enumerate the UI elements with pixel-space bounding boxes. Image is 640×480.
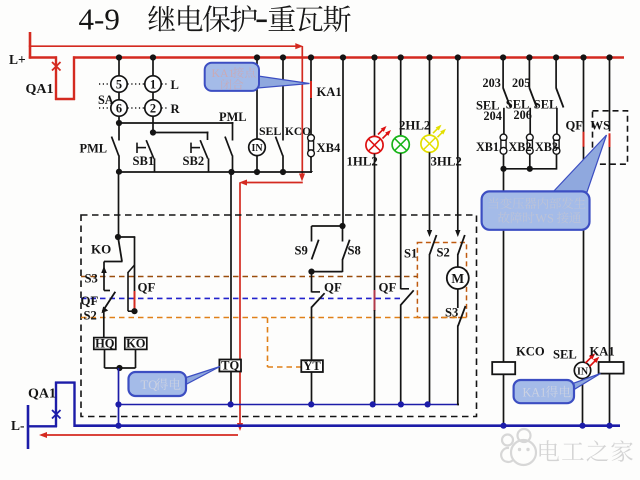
svg-text:S8: S8 <box>348 244 361 258</box>
svg-text:SEL: SEL <box>259 124 281 138</box>
svg-text:KO: KO <box>91 242 111 257</box>
svg-text:KA1: KA1 <box>590 345 615 359</box>
svg-text:TQ: TQ <box>221 358 239 372</box>
svg-text:S3: S3 <box>445 306 458 320</box>
svg-text:QA1: QA1 <box>28 387 56 402</box>
svg-text:L+: L+ <box>9 52 26 67</box>
svg-text:S9: S9 <box>295 244 308 258</box>
svg-text:2HL2: 2HL2 <box>399 119 430 133</box>
svg-text:KA1: KA1 <box>523 386 547 400</box>
svg-text:QF: QF <box>138 281 156 295</box>
svg-text:SB1: SB1 <box>133 154 155 168</box>
svg-text:205: 205 <box>512 76 530 90</box>
svg-text:S3: S3 <box>85 272 98 286</box>
svg-text:206: 206 <box>514 108 532 122</box>
svg-text:204: 204 <box>484 109 502 123</box>
svg-text:QF: QF <box>81 294 99 308</box>
svg-text:XB4: XB4 <box>317 141 341 155</box>
svg-text:KCO: KCO <box>285 126 311 138</box>
svg-text:QF: QF <box>379 281 397 295</box>
svg-text:S2: S2 <box>84 309 97 323</box>
svg-text:5: 5 <box>116 77 122 91</box>
svg-text:KCO: KCO <box>516 345 545 359</box>
svg-text:XB1: XB1 <box>476 140 499 154</box>
svg-text:SB2: SB2 <box>183 154 205 168</box>
svg-text:SEL: SEL <box>553 348 577 362</box>
svg-text:HQ: HQ <box>95 336 115 350</box>
svg-text:S1: S1 <box>404 247 417 261</box>
svg-text:XB3: XB3 <box>535 140 558 154</box>
svg-text:TQ: TQ <box>141 378 158 392</box>
svg-text:QF: QF <box>566 119 584 133</box>
svg-text:KA1: KA1 <box>212 66 235 80</box>
svg-text:1HL2: 1HL2 <box>347 155 378 169</box>
svg-text:WS: WS <box>591 119 611 133</box>
svg-text:S2: S2 <box>437 246 450 260</box>
svg-text:2: 2 <box>150 101 156 115</box>
svg-text:PML: PML <box>219 110 247 124</box>
svg-text:YT: YT <box>303 359 321 373</box>
svg-text:4-9: 4-9 <box>79 1 120 36</box>
svg-text:6: 6 <box>116 101 122 115</box>
svg-text:IN: IN <box>251 143 263 154</box>
svg-text:KO: KO <box>126 336 146 350</box>
svg-text:SEL: SEL <box>534 98 557 112</box>
svg-text:L-: L- <box>11 418 25 433</box>
svg-text:M: M <box>451 271 464 286</box>
svg-text:IN: IN <box>577 366 589 377</box>
svg-text:203: 203 <box>483 76 501 90</box>
svg-text:WS: WS <box>535 211 554 225</box>
svg-text:QA1: QA1 <box>26 82 54 97</box>
svg-text:QF: QF <box>324 281 342 295</box>
svg-text:KA1: KA1 <box>317 85 342 99</box>
svg-text:XB2: XB2 <box>509 140 532 154</box>
svg-text:1: 1 <box>150 77 156 91</box>
svg-text:SA: SA <box>98 93 114 107</box>
svg-text:PML: PML <box>80 142 108 156</box>
svg-text:R: R <box>171 102 181 116</box>
svg-text:L: L <box>171 78 179 92</box>
